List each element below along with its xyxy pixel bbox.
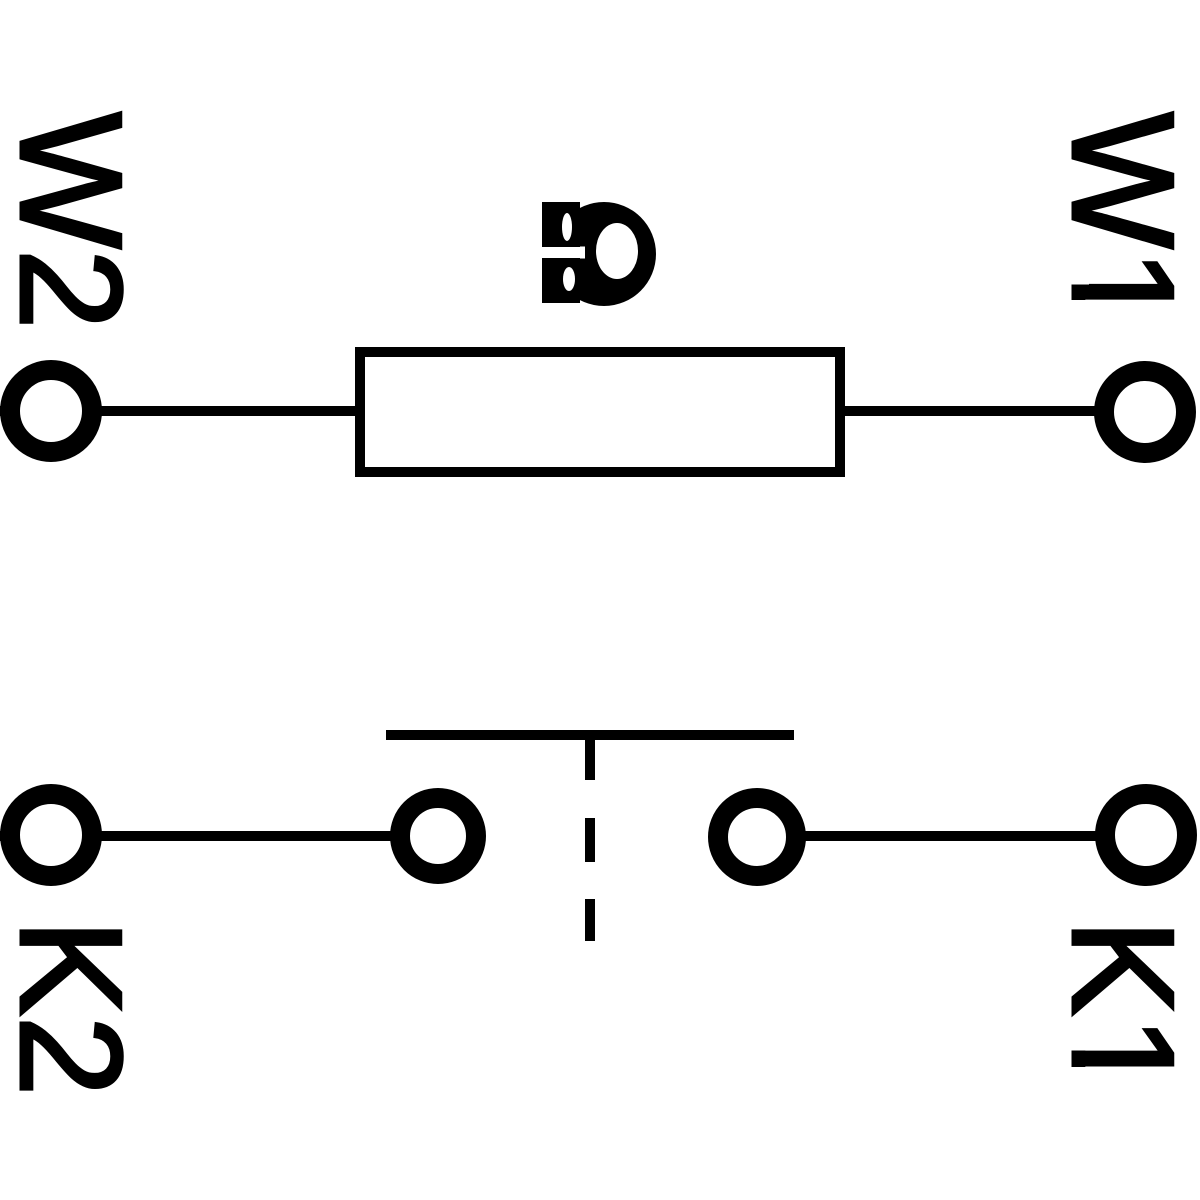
terminal W2 bbox=[10, 370, 92, 452]
switch contact right bbox=[718, 798, 796, 876]
wire contact to K1 terminal bbox=[800, 831, 1146, 841]
terminal K1 bbox=[1105, 794, 1187, 876]
svg-text:W1: W1 bbox=[1042, 112, 1200, 330]
svg-text:K2: K2 bbox=[0, 919, 152, 1096]
switch contact left bbox=[400, 798, 476, 874]
svg-text:W2: W2 bbox=[0, 112, 152, 330]
erase foot serif of digit 1 in W1 bbox=[1068, 257, 1089, 285]
thermistor R1 body bbox=[360, 352, 840, 472]
terminal W1 bbox=[1104, 371, 1186, 453]
terminal K2 bbox=[10, 794, 92, 876]
svg-text:K1: K1 bbox=[1042, 919, 1200, 1096]
erase foot serif of digit 1 in K1 bbox=[1068, 1021, 1089, 1051]
switch actuator bar bbox=[386, 730, 794, 740]
wire W2 terminal to thermistor bbox=[0, 406, 360, 416]
wire thermistor to W1 terminal bbox=[840, 406, 1146, 416]
thermistor temperature label (rotated omega symbol, drawn) bbox=[538, 202, 656, 306]
wire K2 terminal to contact bbox=[0, 831, 400, 841]
switch actuator link (dashed) bbox=[585, 740, 595, 941]
